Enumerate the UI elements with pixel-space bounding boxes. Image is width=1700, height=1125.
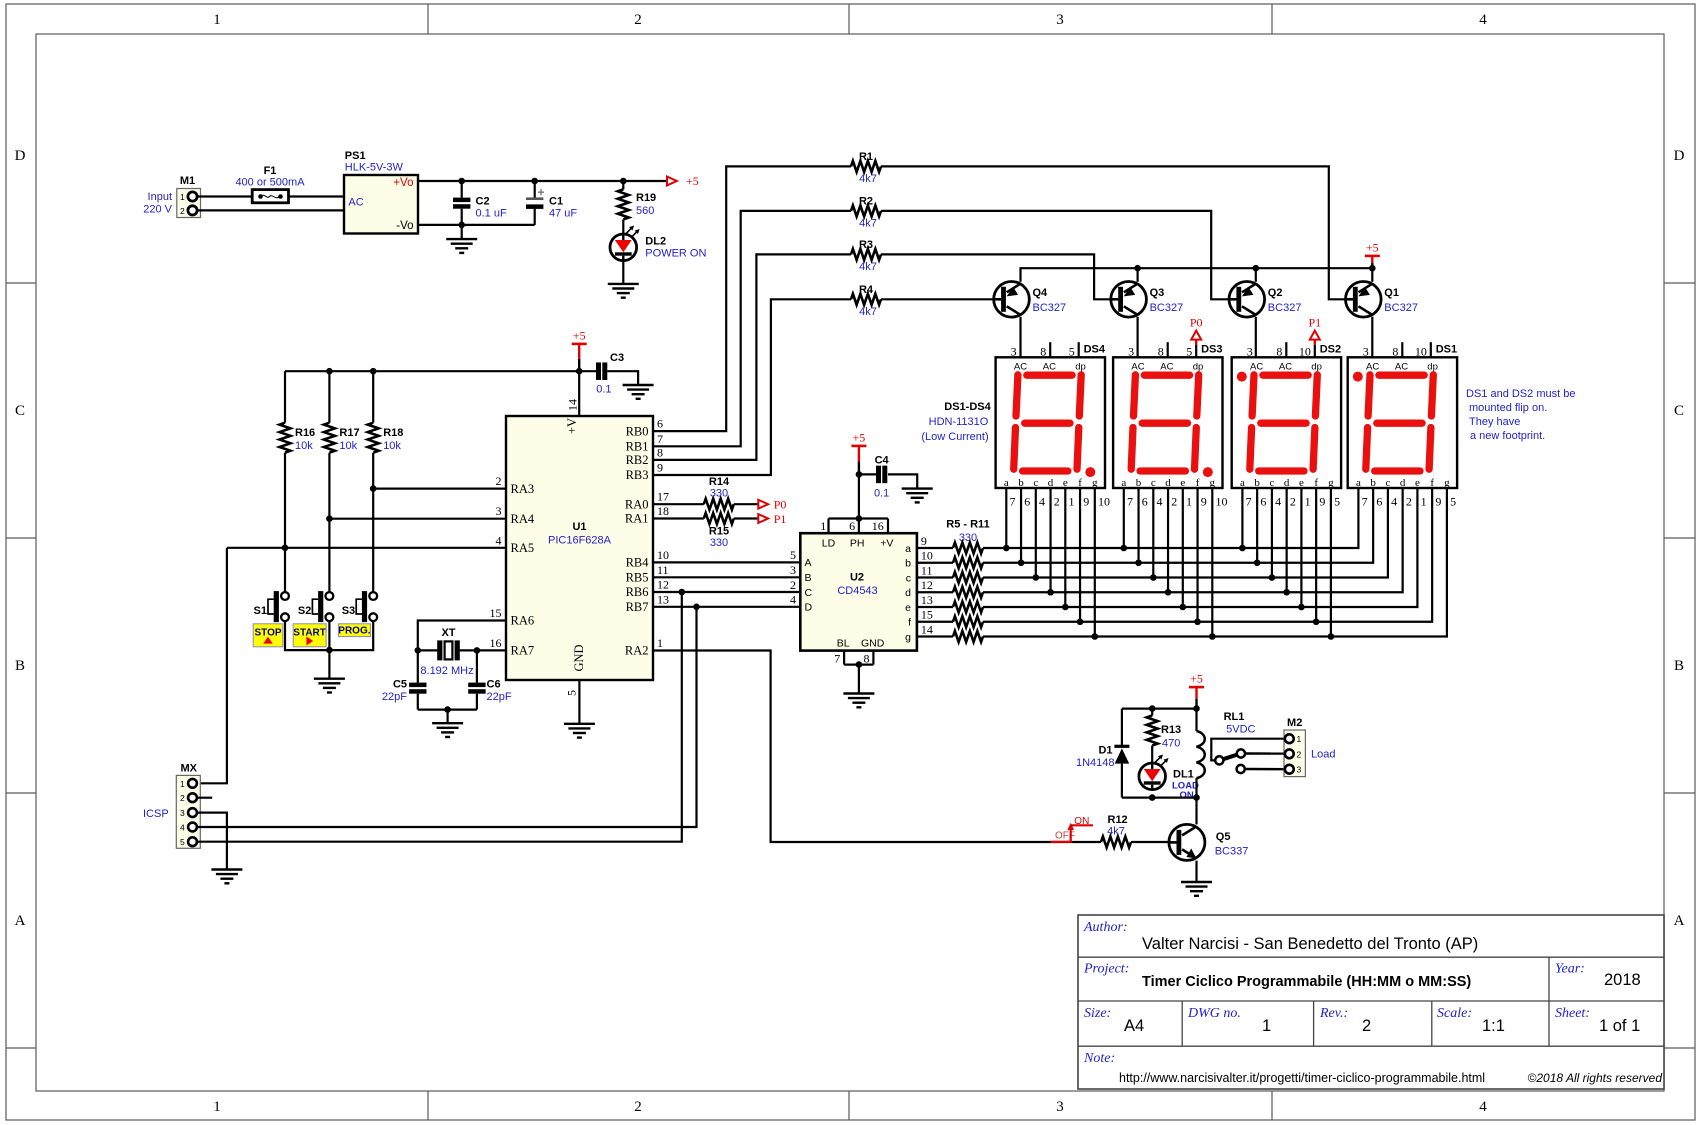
svg-text:RB0: RB0 [626,424,649,438]
svg-text:11: 11 [921,563,933,577]
wire Q5 collector [1195,798,1197,825]
wire M1-2 to PS1 [197,209,344,211]
svg-text:3: 3 [180,808,185,818]
relay RL1 coil [1195,709,1197,731]
svg-text:GND: GND [572,644,586,671]
svg-text:6: 6 [1376,495,1382,509]
svg-text:U2: U2 [850,572,864,584]
wire Q3 emitter [1136,268,1138,282]
svg-text:c: c [1385,477,1390,489]
capacitor C1 [534,181,536,198]
svg-text:RB3: RB3 [626,468,649,482]
svg-text:Rev.:: Rev.: [1319,1006,1348,1021]
wire +5 emitter rail [1021,268,1373,282]
diode D1 1N4148 [1121,709,1123,748]
svg-text:3: 3 [1297,765,1302,775]
junction R13 top [1149,705,1156,712]
ground C4 [902,487,933,489]
svg-text:g: g [1444,477,1450,489]
LED DL1 LOAD ON [1139,763,1166,790]
wire DS2 column d [1286,488,1288,592]
svg-text:+5: +5 [573,328,586,342]
junction RB6/MX5 [679,589,686,596]
ground U1 [564,723,595,725]
svg-text:18: 18 [657,504,669,518]
svg-text:e: e [1299,477,1304,489]
switch S1 [281,592,289,600]
svg-text:DS1-DS4: DS1-DS4 [944,401,991,413]
wire DS3 column d [1167,488,1169,592]
wire DS3 column f [1196,488,1198,622]
wire DS4 column e [1064,488,1066,607]
svg-text:22pF: 22pF [487,691,512,703]
svg-text:AC: AC [1043,361,1056,372]
resistor R18 [372,371,374,423]
svg-text:S3: S3 [342,605,355,617]
svg-text:B: B [15,658,25,674]
svg-text:2: 2 [1297,749,1302,759]
junction R17 top [326,368,333,375]
svg-text:R5 - R11: R5 - R11 [946,519,989,531]
ground XT [432,722,463,724]
svg-text:2: 2 [790,578,796,592]
svg-text:4: 4 [790,593,796,607]
svg-text:330: 330 [710,488,728,500]
svg-text:1: 1 [1421,495,1427,509]
junction rail b DS3 [1135,559,1142,566]
svg-text:R16: R16 [295,427,315,439]
transistor Q1 BC327 [1346,282,1382,318]
junction rail g DS4 [1092,633,1099,640]
svg-text:7: 7 [1246,495,1252,509]
svg-text:U1: U1 [572,521,586,533]
svg-text:1: 1 [180,779,185,789]
junction -Vo/C2 [458,222,465,229]
svg-text:Size:: Size: [1084,1006,1111,1021]
svg-text:Q5: Q5 [1216,831,1231,843]
svg-text:R1: R1 [859,151,873,163]
svg-text:D: D [805,602,813,614]
wire DS4 column f [1079,488,1081,622]
junction U2 pin6 bracket [856,515,863,522]
ground MX [211,868,242,870]
svg-text:M2: M2 [1287,717,1302,729]
svg-text:5: 5 [180,837,185,847]
capacitor C2 [461,181,463,198]
svg-text:C: C [805,587,813,599]
wire rail segment g [983,488,1447,637]
svg-text:4: 4 [1157,495,1163,509]
svg-text:D: D [15,148,26,164]
svg-text:5: 5 [1450,495,1456,509]
ground Q5 [1181,881,1212,883]
resistor R13 [1151,709,1153,716]
svg-text:8: 8 [1276,344,1282,358]
wire Q2 collector [1255,317,1257,358]
label START [293,624,326,647]
wire DS4 column d [1049,488,1051,592]
switch S3 [369,592,377,600]
svg-text:e: e [1063,477,1068,489]
svg-text:DL1: DL1 [1173,769,1194,781]
svg-text:C2: C2 [476,196,490,208]
svg-text:3: 3 [1056,1099,1064,1115]
svg-text:AC: AC [1395,361,1408,372]
svg-text:P0: P0 [1190,316,1203,330]
svg-text:5: 5 [1069,344,1075,358]
wire buttons common [285,621,373,650]
svg-text:AC: AC [348,197,363,209]
title block [1078,915,1664,1089]
svg-text:Sheet:: Sheet: [1555,1006,1590,1021]
capacitor C4 [859,473,876,475]
junction rail b DS2 [1254,559,1261,566]
svg-text:a: a [905,543,911,555]
arrow P0 [734,503,759,505]
svg-text:14: 14 [566,399,580,411]
junction rail c DS2 [1269,574,1276,581]
svg-text:b: b [1136,477,1142,489]
wire Q3 collector [1136,317,1138,358]
svg-text:BC327: BC327 [1384,302,1418,314]
svg-text:8: 8 [1040,344,1046,358]
svg-text:C1: C1 [549,196,563,208]
junction rail d DS4 [1047,589,1054,596]
junction Q1 emitter rail [1369,265,1376,272]
svg-text:10: 10 [1216,495,1228,509]
svg-text:a: a [1240,477,1245,489]
svg-text:Note:: Note: [1083,1051,1115,1066]
junction Q2 emitter rail [1253,265,1260,272]
wire DS3 column g [1211,488,1213,637]
svg-text:R17: R17 [339,427,359,439]
svg-text:dp: dp [1427,361,1438,372]
wire rail segment b [983,488,1373,563]
svg-text:e: e [1415,477,1420,489]
junction RA4/R17 [326,515,333,522]
resistor R8 segment d [917,591,953,593]
wire Q4 collector [1019,317,1021,358]
svg-text:1: 1 [657,636,663,650]
svg-text:R4: R4 [859,284,874,296]
junction C1 top [531,178,538,185]
resistor R10 segment f [917,621,953,623]
wire R1 to Q1 base [881,166,1346,299]
svg-text:AC: AC [1250,361,1263,372]
svg-text:a: a [1121,477,1126,489]
wire DS4 column g [1094,488,1096,637]
wire relay bottom rail [1122,796,1197,798]
svg-text:16: 16 [490,636,502,650]
svg-text:g: g [1210,477,1216,489]
svg-text:2: 2 [1362,1017,1371,1035]
svg-text:+5: +5 [686,174,699,188]
ground U2 [843,692,874,694]
connector M1 [177,189,201,218]
svg-text:e: e [1180,477,1185,489]
svg-text:c: c [1269,477,1274,489]
svg-text:10: 10 [657,548,669,562]
svg-text:2: 2 [634,1099,642,1115]
svg-text:Q3: Q3 [1150,287,1165,299]
wire RB5 to U2 B [653,576,800,578]
wire U1 GND pin5 [578,680,580,724]
display DS4 HDN-1131O [996,357,1105,488]
wire rail segment c [983,488,1388,578]
svg-text:dp: dp [1075,361,1086,372]
junction Q5 collector top [1193,794,1200,801]
svg-text:Load: Load [1311,749,1335,761]
svg-text:13: 13 [657,592,669,606]
wire DS2 column f [1315,488,1317,622]
svg-text:2: 2 [180,793,185,803]
svg-text:10: 10 [1415,344,1427,358]
svg-text:22pF: 22pF [382,691,407,703]
svg-text:9: 9 [1201,495,1207,509]
svg-text:Input: Input [148,191,172,203]
svg-text:Q2: Q2 [1268,287,1283,299]
wire DS2 column b [1256,488,1258,563]
wire RB3 riser [653,299,851,475]
svg-text:2: 2 [180,206,185,216]
junction rail f DS2 [1313,618,1320,625]
svg-text:8: 8 [1158,344,1164,358]
svg-text:7: 7 [657,432,663,446]
svg-text:d: d [905,587,911,599]
junction R18 top [370,368,377,375]
ground C2 [461,225,463,239]
svg-text:P1: P1 [1308,316,1321,330]
svg-text:DS2: DS2 [1320,344,1341,356]
capacitor C5 [417,650,419,682]
svg-text:R12: R12 [1108,814,1128,826]
svg-text:RB5: RB5 [626,571,649,585]
relay contacts [1211,739,1285,761]
fuse F1 [252,190,288,203]
wire DS2 column g [1330,488,1332,637]
svg-text:10: 10 [1098,495,1110,509]
svg-text:dp: dp [1311,361,1322,372]
resistor R7 segment c [917,576,953,578]
svg-text:M1: M1 [180,175,195,187]
svg-text:1: 1 [213,1099,221,1115]
junction rail e DS2 [1298,604,1305,611]
wire RA0 [653,503,704,505]
svg-text:A: A [1674,913,1685,929]
svg-text:R18: R18 [383,427,403,439]
svg-text:S2: S2 [298,605,311,617]
svg-text:47 uF: 47 uF [549,208,577,220]
wire C3 to ground [607,371,638,385]
display DS2 HDN-1131O [1232,357,1341,488]
wire RB1 riser [653,211,851,446]
wire DS3 column e [1182,488,1184,607]
junction rail f DS3 [1194,618,1201,625]
svg-text:5: 5 [1186,344,1192,358]
junction rail a DS3 [1121,545,1128,552]
svg-text:A4: A4 [1124,1017,1144,1035]
svg-text:a: a [1004,477,1009,489]
svg-text:DS1 and DS2 must be: DS1 and DS2 must be [1466,388,1575,400]
svg-text:15: 15 [921,608,933,622]
junction S2 bottom [326,647,333,654]
svg-text:g: g [905,631,911,643]
svg-text:b: b [1018,477,1024,489]
svg-text:4: 4 [1039,495,1045,509]
svg-text:a new footprint.: a new footprint. [1470,430,1545,442]
wire MX2 stub [197,797,212,799]
svg-text:©2018 All rights reserved: ©2018 All rights reserved [1528,1071,1663,1085]
junction XT right [474,647,481,654]
svg-text:+5: +5 [1190,672,1203,686]
transistor Q4 BC327 [994,282,1030,318]
junction rail d DS2 [1283,589,1290,596]
svg-text:They have: They have [1469,416,1520,428]
svg-text:f: f [1078,477,1082,489]
svg-text:400 or 500mA: 400 or 500mA [235,177,305,189]
wire C4 to ground [888,474,917,488]
svg-text:R19: R19 [636,192,656,204]
svg-text:-Vo: -Vo [396,220,413,232]
svg-text:3: 3 [1011,344,1017,358]
wire MX4 to RB7 [197,607,697,827]
ground C3 [623,384,654,386]
svg-text:10: 10 [921,549,933,563]
wire RA5 to MX1 [197,548,227,784]
arrow P1 [734,517,759,519]
junction RA3/R18 [370,485,377,492]
capacitor C3 [596,362,601,380]
svg-text:8: 8 [657,445,663,459]
junction rail d DS3 [1165,589,1172,596]
svg-text:6: 6 [1024,495,1030,509]
ground DL2 [622,261,624,284]
svg-text:4k7: 4k7 [859,218,877,230]
svg-text:+5: +5 [1366,240,1379,254]
svg-text:5VDC: 5VDC [1226,724,1255,736]
svg-text:470: 470 [1162,738,1180,750]
svg-text:C3: C3 [610,352,624,364]
resistor R14 [704,499,734,510]
svg-text:g: g [1092,477,1098,489]
svg-text:D1: D1 [1098,745,1112,757]
svg-text:3: 3 [1056,12,1064,28]
resistor R4 [851,294,881,305]
svg-text:1: 1 [1262,1017,1271,1035]
svg-text:b: b [905,558,911,570]
svg-text:R15: R15 [709,526,729,538]
svg-text:3: 3 [1363,344,1369,358]
svg-text:f: f [1430,477,1434,489]
svg-text:5: 5 [1334,495,1340,509]
svg-text:RB2: RB2 [626,453,649,467]
wire RA2 to R12 [653,651,1101,843]
svg-text:A: A [805,557,812,569]
wire R3 to Q3 base [881,254,1111,299]
wire R2 to Q2 base [881,211,1229,299]
svg-text:AC: AC [1366,361,1379,372]
svg-text:XT: XT [441,627,455,639]
svg-text:10k: 10k [383,440,401,452]
IC U2 CD4543 [800,533,917,650]
wire +5 rail to C3 [285,370,596,372]
connector MX ICSP [176,775,200,848]
svg-text:4k7: 4k7 [859,173,877,185]
svg-text:8.192 MHz: 8.192 MHz [420,665,473,677]
wire MX3 to ground [197,813,227,870]
svg-text:0.1 uF: 0.1 uF [476,208,507,220]
svg-text:Q4: Q4 [1033,287,1049,299]
svg-text:0.1: 0.1 [874,488,889,500]
svg-text:b: b [1370,477,1376,489]
wire RB6 to U2 C [653,591,800,593]
svg-text:8: 8 [864,651,870,665]
svg-text:P1: P1 [774,512,787,526]
junction C2 top [458,178,465,185]
svg-text:a: a [1356,477,1361,489]
svg-text:CD4543: CD4543 [837,585,877,597]
svg-text:dp: dp [1193,361,1204,372]
svg-text:1: 1 [1069,495,1075,509]
wire DS2 column c [1271,488,1273,578]
wire R4 to Q4 base [881,298,994,300]
resistor R19 [622,181,624,189]
svg-text:PH: PH [850,538,865,550]
svg-text:+5: +5 [853,430,866,444]
junction C4 [856,471,863,478]
svg-text:g: g [1328,477,1334,489]
svg-text:9: 9 [1083,495,1089,509]
svg-text:b: b [1254,477,1260,489]
svg-text:d: d [1165,477,1171,489]
svg-text:220 V: 220 V [143,204,172,216]
svg-text:1: 1 [180,192,185,202]
wire DS3 column c [1152,488,1154,578]
svg-text:C6: C6 [487,679,501,691]
svg-text:2: 2 [496,474,502,488]
svg-text:POWER ON: POWER ON [645,248,706,260]
svg-text:9: 9 [1435,495,1441,509]
svg-text:0.1: 0.1 [596,384,611,396]
svg-text:RA1: RA1 [625,512,649,526]
svg-text:Timer Ciclico Programmabile (H: Timer Ciclico Programmabile (HH:MM o MM:… [1142,974,1471,990]
wire rail segment a [983,488,1358,548]
junction Q3 emitter rail [1134,265,1141,272]
svg-text:RB1: RB1 [626,440,649,454]
junction rail b DS4 [1018,559,1025,566]
wire RA1 [653,517,704,519]
svg-text:RA6: RA6 [511,614,535,628]
wire RA4 [329,518,506,520]
wire DS2 column e [1300,488,1302,607]
svg-text:12: 12 [657,578,669,592]
wire R12 to Q5 base [1131,841,1169,843]
resistor R12 [1101,837,1131,848]
junction rail c DS3 [1150,574,1157,581]
svg-text:R2: R2 [859,196,873,208]
wire Q1 collector [1371,317,1373,358]
junction U2 GND [856,661,863,668]
LED DL2 POWER ON [610,234,637,261]
junction rail c DS4 [1033,574,1040,581]
wire DS4 column c [1035,488,1037,578]
junction rail e DS3 [1180,604,1187,611]
display DS1 HDN-1131O [1348,357,1457,488]
svg-text:BC327: BC327 [1150,302,1184,314]
crystal XT [418,649,439,651]
svg-text:2: 2 [1406,495,1412,509]
svg-text:4: 4 [1391,495,1397,509]
